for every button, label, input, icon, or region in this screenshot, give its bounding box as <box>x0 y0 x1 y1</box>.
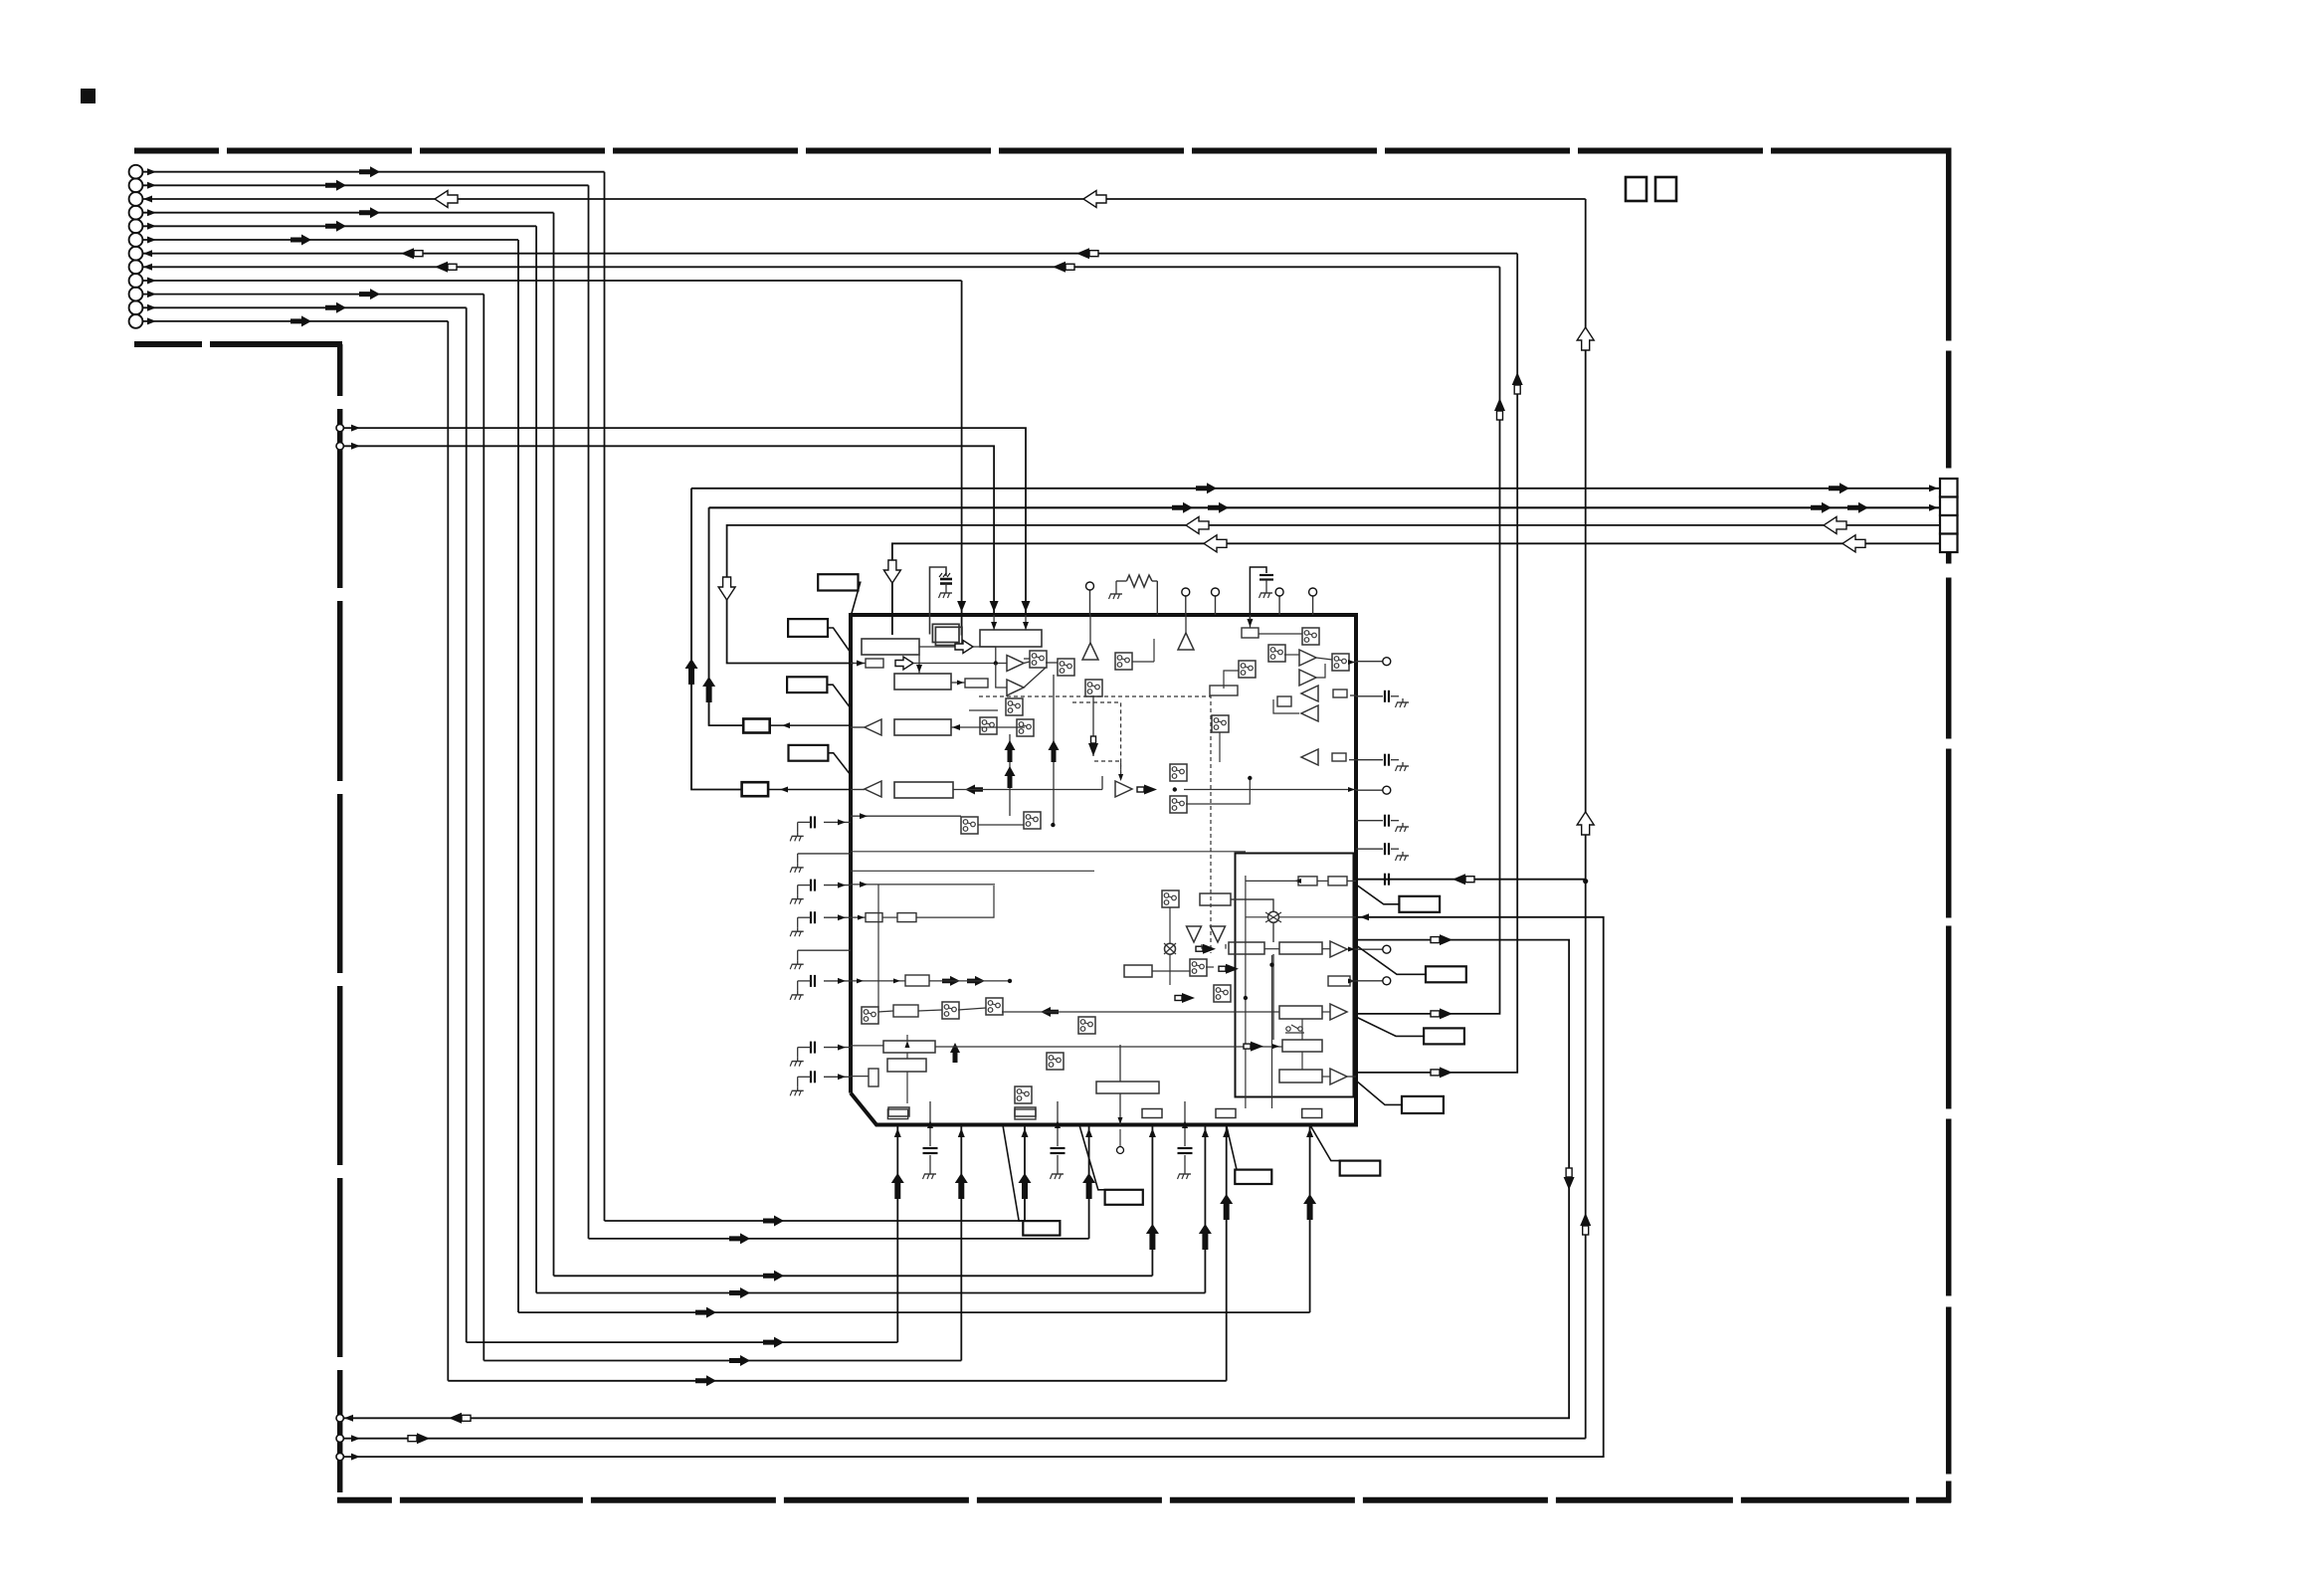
connector P1 pin 6 circle <box>129 233 143 247</box>
U1 rect K <box>905 975 929 986</box>
U1 pin wire 986 <box>851 980 905 982</box>
wire CN2 line3 <box>727 525 1940 664</box>
wire row6 <box>142 239 518 241</box>
label box L2 <box>788 619 828 637</box>
page border top (dashed) <box>134 148 1951 154</box>
U1 rect V <box>1282 1040 1322 1052</box>
U1 switch S21 <box>1015 1086 1032 1103</box>
U1 switch S22 <box>1162 890 1179 907</box>
label box D2 <box>1105 1190 1143 1205</box>
page border right (dashed) <box>1946 148 1952 1503</box>
U1 rect H <box>1242 628 1259 638</box>
arrowhead row6 <box>147 237 156 244</box>
wire S1-S2 <box>1046 662 1058 664</box>
U1 amp12 <box>1330 1004 1347 1020</box>
U1 wire amp5-S11 <box>1316 658 1332 660</box>
arrowhead N3 <box>344 1415 353 1422</box>
arrowhead pin X1211 <box>1202 1128 1209 1137</box>
U1 switch S10 <box>1268 645 1285 662</box>
wire 666 to amp <box>913 663 1007 665</box>
IC right terminal 794 <box>1356 789 1383 791</box>
U1 wire S8 out <box>1132 661 1154 663</box>
pin 853 cap <box>1356 848 1383 850</box>
bus vertical V607 <box>604 172 606 1221</box>
arrowhead row5 <box>147 223 156 230</box>
U1 switch S12 <box>1239 661 1256 678</box>
arrow line2 a <box>1172 502 1193 513</box>
arrowhead pin X1316 <box>1306 1128 1313 1137</box>
wire node N2 <box>344 446 994 614</box>
U1 wire S13 down <box>1219 732 1221 762</box>
U1 pin wire 794 <box>1184 789 1356 791</box>
U1 amp8 left <box>1301 705 1318 721</box>
bus vertical V450 <box>447 321 449 1381</box>
bus bottom row Y1387 <box>448 1380 1226 1382</box>
arrow up pin X902 <box>891 1173 904 1199</box>
arrowhead N1 into IC <box>1022 601 1031 612</box>
U1 inner box <box>1236 854 1354 1097</box>
connector P1 pin 8 circle <box>129 260 143 274</box>
U1 amp13 <box>1330 1069 1347 1084</box>
section marker square <box>81 89 96 103</box>
arrowhead left 826 <box>838 819 846 825</box>
label box L3 <box>787 677 827 692</box>
arrow V1593 bottom <box>1580 1213 1591 1226</box>
U1 wire tri-down a <box>1201 944 1203 949</box>
label box R1 <box>1399 896 1440 912</box>
U1 tiny switch <box>1286 1027 1290 1031</box>
node circle N1 <box>336 424 343 431</box>
pin 699 cap <box>1350 694 1356 696</box>
U1 tri up <box>1082 643 1098 660</box>
arrow 1003 r <box>1182 993 1195 1003</box>
wire amp3 out <box>851 726 865 728</box>
U1 switch S4 <box>1006 698 1023 715</box>
arrow up pin X1316 <box>1303 1194 1316 1220</box>
arrow into IC pin 885 <box>1452 874 1465 885</box>
connector P1 pin 9 circle <box>129 274 143 288</box>
arrow IC pin 1019 <box>1440 1008 1452 1019</box>
arrowhead N1 start <box>351 425 360 432</box>
arrow V1525 <box>1512 372 1523 385</box>
U1 rect X wide <box>1096 1082 1159 1093</box>
U1 rect N <box>887 1059 926 1072</box>
U1 switch S17 <box>942 1002 959 1019</box>
U1 vert risers mid <box>1009 734 1011 816</box>
arrow up pin X1030 <box>1019 1173 1032 1199</box>
U1 rect R1 <box>1229 942 1264 954</box>
arrowhead pin 666 <box>857 661 865 667</box>
arrow row1 <box>359 166 380 177</box>
arrow up 1068 <box>950 1043 960 1063</box>
arrowhead left 1082 <box>838 1074 846 1080</box>
U1 switch S6 <box>961 817 978 834</box>
arrowhead pin X1030 <box>1022 1128 1029 1137</box>
junction V1593/pin <box>1583 879 1588 884</box>
U1 rect P <box>887 1109 907 1119</box>
bus bottom row Y1282 <box>554 1275 1153 1277</box>
arrow row7 b <box>1076 248 1089 259</box>
arrow row2 <box>325 180 346 191</box>
connector P1 pin 1 circle <box>129 165 143 179</box>
U1 rect O <box>1015 1109 1036 1119</box>
gnd stub left 955 <box>798 949 851 951</box>
U1 wire amp8 in <box>1273 699 1299 713</box>
wire CN2 line1 horiz <box>691 488 1940 490</box>
wire row10 <box>142 294 484 295</box>
U1 wire net r2 <box>1272 922 1274 942</box>
connector CN2 box 1 <box>1940 479 1958 497</box>
U1 rect T <box>1328 976 1350 986</box>
IC top terminal X1191 <box>1185 596 1187 615</box>
IC top terminal X1095 <box>1089 590 1091 615</box>
U1 rect D <box>894 674 951 689</box>
arrowhead pin X902 <box>894 1128 901 1137</box>
IC bottom pin riser X902 <box>896 1125 898 1343</box>
bus vertical V468 <box>466 307 468 1342</box>
hollow arrow row3 b <box>1083 191 1106 208</box>
label box D3 <box>1235 1170 1271 1184</box>
arrow row8 a <box>435 262 448 273</box>
U1 gray line 875 <box>851 870 1094 872</box>
wire G input <box>953 789 1102 791</box>
arrowhead left 889 <box>838 883 846 888</box>
arrow row12 <box>290 315 311 326</box>
hollow arrow in 666 <box>895 657 913 670</box>
U1 switch S20 <box>1047 1053 1064 1070</box>
arrow line2 b <box>1208 502 1229 513</box>
arrow up pin X1158 <box>1146 1224 1159 1250</box>
U1 switch S5b <box>1017 719 1034 736</box>
wire F input <box>951 726 1025 728</box>
page border left (dashed) <box>337 344 343 1502</box>
U1 amp9 left <box>1301 749 1318 765</box>
arrow N3 left <box>449 1413 462 1424</box>
wire V712 to B1 <box>709 507 744 725</box>
hollow arrow V1593 top <box>1577 327 1594 350</box>
U1 rect I <box>1210 686 1238 695</box>
arrowhead line1 <box>1929 485 1938 492</box>
U1 wire amp6 up <box>1316 664 1325 678</box>
arrow 986 a <box>942 976 960 986</box>
bus bottom row Y1244 <box>589 1238 1089 1240</box>
hollow arrow line3 a <box>1186 516 1209 533</box>
wire row3 (net to V1593) <box>142 198 1585 200</box>
connector P1 pin 2 circle <box>129 178 143 192</box>
connector P1 pin 7 circle <box>129 247 143 261</box>
bus vertical V556 <box>553 213 555 1277</box>
cap below 1191 <box>1184 1101 1186 1146</box>
U1 pin stub 665 <box>1349 662 1356 664</box>
cap left 922 <box>824 916 851 918</box>
U1 rect E <box>965 679 988 688</box>
connector P1 pin 3 circle <box>129 192 143 206</box>
arrowhead into C b <box>1025 615 1027 630</box>
bus bottom row Y1227 <box>605 1220 1026 1222</box>
cap left 826 <box>824 821 851 823</box>
wire row4 <box>142 212 553 214</box>
arrowhead into C a <box>993 615 995 630</box>
cap top-left group <box>930 567 947 635</box>
wire row9 drop <box>961 281 963 636</box>
U1 rect A <box>862 639 919 655</box>
wire CN2 line2 vert <box>708 507 710 725</box>
term circle below IC <box>1119 1129 1121 1146</box>
wire 986 to x1015 <box>929 980 1010 982</box>
U1 junction 1251 <box>1244 996 1248 1000</box>
arrow on row Y1244 <box>729 1233 750 1244</box>
U1 switch S23 <box>1190 959 1207 976</box>
IC right terminal 986 <box>1356 980 1383 982</box>
IC bottom pin riser X1094 <box>1088 1125 1090 1239</box>
connector P1 pin 5 circle <box>129 219 143 233</box>
arrow up mid a <box>1005 740 1016 762</box>
label box R4 <box>1402 1096 1444 1113</box>
arrow up V695 <box>685 659 698 685</box>
U1 tri down b <box>1211 926 1226 942</box>
pin 825 cap <box>1356 820 1383 822</box>
arrow up pin X966 <box>955 1173 968 1199</box>
U1 amp7 left <box>1301 686 1318 701</box>
arrow row8 b <box>1053 262 1065 273</box>
cap below 935 <box>929 1101 931 1146</box>
arrowhead row1 <box>147 168 156 175</box>
node circle N5 <box>336 1453 343 1460</box>
hollow arrow V896 down <box>883 560 900 583</box>
IC bottom pin riser X1316 <box>1309 1125 1311 1313</box>
node circle N2 <box>336 443 343 450</box>
U1 switch S11 <box>1332 654 1349 671</box>
wire V1525 (row7 net) <box>1356 254 1517 1073</box>
IC top terminal X1221 <box>1215 596 1217 615</box>
U1 dashed to amp10 <box>1094 761 1121 779</box>
arrow line1 b <box>1829 483 1849 493</box>
wire V695 to B2 <box>691 489 742 790</box>
arrow line1 a <box>1196 483 1217 493</box>
wire row5 <box>142 225 536 227</box>
U1 res pin666 <box>866 659 883 668</box>
bus bottom row Y1349 <box>467 1341 898 1343</box>
bus bottom row Y1299 <box>536 1292 1205 1294</box>
wire CN2 line1 <box>690 489 692 790</box>
IC bottom pin riser X1158 <box>1151 1125 1153 1277</box>
U1 switch S14 <box>1170 764 1187 781</box>
gnd stub left 857 <box>798 853 851 855</box>
U1 switch S9 <box>1302 628 1319 645</box>
arrow N3 right at IC <box>1440 934 1452 945</box>
U1 gray line 856 <box>851 851 1246 853</box>
arrow row4 <box>359 207 380 218</box>
U1 rect M wide <box>883 1041 935 1053</box>
wire CN2 line2 horiz <box>709 506 1940 508</box>
wire row9 (to IC top) <box>142 280 961 282</box>
wire row7 (net to V1525) <box>142 253 1517 255</box>
wire row1 <box>142 171 604 173</box>
IC bottom pin riser X1211 <box>1204 1125 1206 1293</box>
arrowhead row12 <box>147 317 156 324</box>
U1 rect G <box>894 782 953 798</box>
arrow on row Y1227 <box>763 1216 784 1227</box>
U1 switch S3 <box>1085 680 1102 696</box>
wire node N4 (to V1593) <box>344 1438 1586 1440</box>
U1 rect S <box>1124 965 1152 977</box>
U1 wire S16-L <box>878 1011 893 1012</box>
wire S6-S7 <box>978 824 1024 826</box>
arrow 950 r <box>1203 944 1216 954</box>
arrowhead pin X1232 <box>1223 1128 1230 1137</box>
arrow up pin X1094 <box>1082 1173 1095 1199</box>
U1 switch S7 <box>1024 812 1041 829</box>
arrow V1507 <box>1494 398 1505 411</box>
bold box B2 <box>742 782 769 796</box>
wire row8 (net to V1507) <box>142 266 1499 268</box>
U1 wire rectH-S9 <box>1259 633 1302 635</box>
pin 763 cap <box>1349 759 1356 761</box>
U1 amp10 <box>1115 781 1132 797</box>
wire node N3 (from V1577) <box>344 940 1569 1419</box>
arrow on row Y1319 <box>695 1307 716 1318</box>
arrowhead row8 <box>143 264 152 271</box>
U1 rect F <box>894 719 951 735</box>
U1 switch S1 <box>1030 651 1047 668</box>
arrow on row Y1387 <box>695 1375 716 1386</box>
arrowhead N2 start <box>351 443 360 450</box>
label box R2 <box>1426 966 1466 982</box>
cap below 1063 <box>1057 1101 1059 1146</box>
arrow row7 a <box>401 248 414 259</box>
U1 wire S10-amp5 <box>1284 654 1299 656</box>
arrow on row Y1349 <box>763 1337 784 1348</box>
U1 gray net b <box>906 1072 908 1103</box>
U1 junction 1278 <box>1269 963 1273 967</box>
wire amp2 loop <box>996 664 1007 689</box>
connector P1 pin 11 circle <box>129 300 143 314</box>
U1 amp2 <box>1007 680 1024 695</box>
U1 pin wire 1051 <box>851 1045 883 1047</box>
arrowhead row9 <box>147 278 156 285</box>
page border top-left stub <box>134 341 342 347</box>
wire row12 <box>142 320 448 322</box>
U1 amp1 <box>1007 656 1024 672</box>
arrow row10 <box>359 289 380 299</box>
U1 rect W <box>1279 1070 1322 1083</box>
hollow arrow V1593 mid <box>1577 812 1594 835</box>
U1 gray net a <box>877 885 879 1007</box>
connector CN2 box 3 <box>1940 515 1958 534</box>
IC U1 outline <box>851 615 1356 1125</box>
U1 wire net r1 <box>1231 899 1273 912</box>
arrow amp10 out <box>1144 785 1157 795</box>
U1 switch S19 <box>1078 1017 1095 1034</box>
bold box B1 <box>743 719 770 733</box>
cap left 889 <box>824 885 851 886</box>
wire IC pin to V1593 <box>1356 879 1586 881</box>
arrowhead row2 <box>147 182 156 189</box>
U1 rect Q <box>1200 893 1231 905</box>
cap top-right group <box>1250 567 1266 625</box>
bus vertical V539 <box>535 226 537 1292</box>
IC top terminal X1286 <box>1278 596 1280 615</box>
U1 amp4 left <box>865 781 881 797</box>
arrow on row Y1282 <box>763 1271 784 1281</box>
U1 wire S17-S18 <box>958 1008 986 1010</box>
U1 pin wire y820 <box>851 815 961 817</box>
wire node N5 (to V1611) <box>344 917 1604 1457</box>
connector P1 pin 10 circle <box>129 288 143 301</box>
arrow down mid <box>1088 743 1098 756</box>
wire row2 <box>142 184 588 186</box>
cap left 985 <box>824 980 851 982</box>
cap left 1052 <box>824 1047 851 1049</box>
U1 wire net r3 <box>1169 954 1171 985</box>
arrow line2 c <box>1811 502 1832 513</box>
node circle N3 <box>336 1415 343 1422</box>
arrowhead N5 <box>351 1454 360 1461</box>
arrowhead left 922 <box>838 914 846 920</box>
U1 switch S2 <box>1058 659 1074 676</box>
wire B2 to IC <box>768 789 851 791</box>
arrowhead row9 into IC <box>957 601 966 612</box>
U1 wire R1-R2 <box>1264 948 1279 950</box>
U1 amp5 <box>1299 650 1316 666</box>
arrow row5 <box>325 221 346 232</box>
U1 pin wire 1082 <box>851 1076 869 1078</box>
bus vertical V521 <box>517 240 519 1312</box>
IC bottom pin riser X966 <box>960 1125 962 1361</box>
U1 wire U-amp12 <box>1322 1011 1330 1013</box>
U1 switch S15 <box>1170 796 1187 813</box>
U1 wire 1126 pin <box>1119 1093 1121 1125</box>
wire 1017 <box>1002 1011 1279 1013</box>
U1 pin blocks <box>1142 1109 1162 1118</box>
arrowhead row11 <box>147 304 156 311</box>
connector CN2 box 2 <box>1940 497 1958 516</box>
U1 rect C <box>980 630 1042 647</box>
U1 rect L <box>893 1005 918 1017</box>
arrow row6 <box>290 235 311 246</box>
arrow on row Y1367 <box>729 1355 750 1366</box>
arrow up pin X1211 <box>1199 1224 1212 1250</box>
U1 tri up2 <box>1178 633 1194 650</box>
wire row11 <box>142 306 466 308</box>
bus vertical V486 <box>483 295 484 1361</box>
wire amp4 out <box>851 789 865 791</box>
cap left 1082 <box>824 1076 851 1078</box>
resistor R-top zigzag <box>1126 575 1152 587</box>
bus vertical V591 <box>588 185 590 1239</box>
U1 wire R2-amp11 <box>1322 948 1330 950</box>
U1 left pin wire y666 <box>851 663 866 665</box>
arrow left 1017 <box>1041 1007 1059 1017</box>
connector P1 pin 12 circle <box>129 314 143 328</box>
hollow arrow line4 b <box>1842 535 1865 552</box>
U1 wire V chain <box>1301 1019 1303 1040</box>
arrow on row Y1299 <box>729 1287 750 1298</box>
U1 wire M out <box>935 1046 1282 1048</box>
U1 wire S12 left <box>1224 671 1239 689</box>
arrowhead pin X1158 <box>1149 1128 1156 1137</box>
IC right terminal 954 <box>1356 948 1383 950</box>
U1 tall rect <box>869 1069 878 1086</box>
arrow up mid c <box>1049 740 1060 762</box>
arrow IC pin 1078 <box>1440 1067 1452 1078</box>
U1 rect B (dbl) <box>932 624 959 642</box>
arrow up V712 <box>702 677 715 702</box>
junction amp10 <box>1173 787 1177 791</box>
U1 switch S18 <box>986 998 1003 1015</box>
U1 wire W-amp13 <box>1322 1076 1330 1078</box>
U1 wire L-S17 <box>918 1010 942 1011</box>
